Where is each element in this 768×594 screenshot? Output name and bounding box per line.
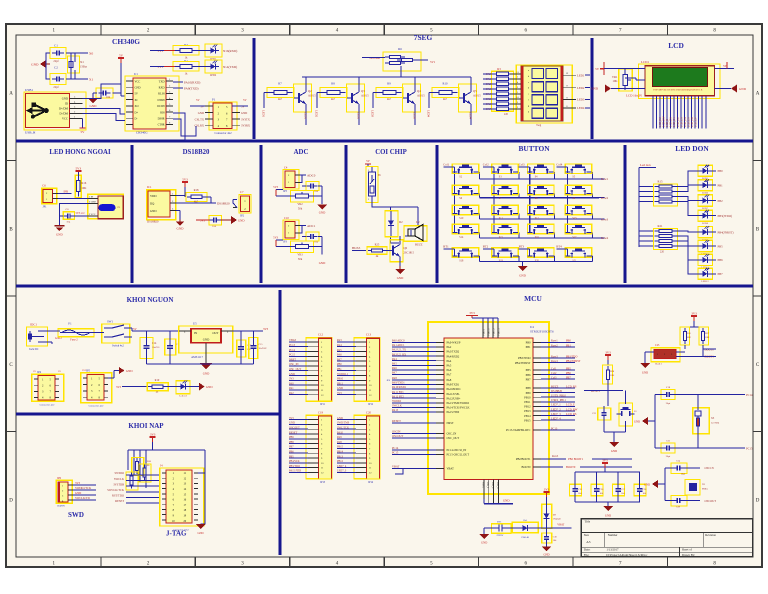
wire crystal network (46, 53, 88, 79)
ground GND ADC0 (312, 186, 327, 215)
button S11 (492, 205, 518, 220)
svg-text:VDD_2: VDD_2 (493, 328, 496, 336)
svg-text:GND: GND (739, 87, 747, 91)
section title MCU (524, 294, 542, 303)
svg-text:S16: S16 (535, 236, 540, 239)
svg-text:3V3: 3V3 (605, 351, 611, 355)
svg-text:Row5: Row5 (552, 455, 559, 458)
svg-text:PA13/TMS/SWDIO: PA13/TMS/SWDIO (447, 402, 470, 405)
svg-text:PB14: PB14 (524, 415, 531, 418)
svg-text:U5: U5 (193, 322, 197, 326)
svg-text:Connector 4x2: Connector 4x2 (89, 405, 105, 408)
switch SW1 (92, 320, 136, 348)
svg-text:JP13: JP13 (320, 481, 326, 484)
section title LCD (668, 41, 684, 50)
svg-text:1 IN: 1 IN (89, 197, 93, 199)
svg-text:Fuse 2: Fuse 2 (70, 339, 78, 342)
svg-text:GND: GND (238, 219, 245, 223)
svg-text:BUZZ: BUZZ (415, 243, 423, 247)
svg-text:PA11/USB-: PA11/USB- (447, 393, 460, 396)
svg-text:GND: GND (611, 449, 617, 453)
svg-text:LED2: LED2 (315, 110, 319, 118)
svg-text:3V3TDB: 3V3TDB (113, 482, 124, 486)
svg-text:3V3TX: 3V3TX (241, 117, 251, 121)
net label OSCIN (685, 466, 715, 470)
svg-text:3V3: 3V3 (469, 311, 475, 315)
capacitor C23 (661, 440, 675, 459)
svg-text:10K: 10K (705, 336, 710, 339)
svg-text:GND: GND (543, 554, 549, 557)
svg-text:LED4: LED4 (469, 112, 473, 120)
svg-text:3V3: 3V3 (82, 369, 87, 372)
capacitor C14 electrolytic (140, 331, 160, 364)
svg-text:USB_H: USB_H (25, 131, 36, 135)
button S8 (528, 185, 555, 200)
svg-text:VBAT: VBAT (557, 523, 564, 526)
svg-text:SWDIO: SWDIO (115, 471, 124, 475)
section title LED DON (675, 144, 709, 153)
power 5V3 DS18B20 (176, 178, 188, 196)
svg-text:PA9(TXD): PA9(TXD) (184, 87, 199, 91)
svg-text:PB6: PB6 (566, 372, 571, 375)
svg-text:S13: S13 (572, 217, 577, 220)
svg-text:Col1: Col1 (551, 367, 557, 370)
net label Led don (640, 163, 656, 168)
svg-text:3V3: 3V3 (544, 488, 550, 492)
wire coi (372, 167, 418, 243)
label U4 STM32F103C8T6 (530, 325, 554, 334)
svg-text:BT1: BT1 (443, 244, 449, 248)
net labels boot right (541, 455, 632, 469)
section divider BUTTON/LED-DON (624, 145, 627, 283)
svg-text:PA3/TXD2: PA3/TXD2 (447, 351, 460, 354)
svg-text:D+: D+ (135, 111, 139, 114)
section title LED HONG NGOAI (49, 149, 111, 156)
wire IR (58, 194, 88, 226)
net labels nap (107, 471, 159, 503)
ground arrow GND usb crystal (31, 60, 50, 68)
wire transistor stage 1 (264, 77, 306, 125)
svg-text:Row1: Row1 (601, 177, 609, 181)
resistor pack R15 (654, 180, 678, 207)
resistor network RP1 top (362, 47, 436, 71)
svg-text:C14: C14 (152, 342, 157, 345)
net label DS18B20 (217, 201, 230, 205)
buzzer U2 (404, 220, 427, 247)
svg-text:Date:: Date: (584, 548, 591, 552)
ground GND IR (54, 226, 64, 237)
svg-text:RI8: RI8 (160, 111, 165, 114)
ground GND crystal32 (634, 417, 655, 425)
svg-text:DCD8: DCD8 (157, 105, 165, 108)
power 5V LCD left (595, 62, 645, 75)
svg-text:PA9/TXD1: PA9/TXD1 (447, 384, 460, 387)
svg-text:VDD: VDD (150, 194, 157, 198)
svg-text:PB7: PB7 (566, 377, 571, 380)
svg-text:D+/DM: D+/DM (59, 107, 69, 111)
net label N16(RXD) (223, 49, 237, 53)
svg-text:GND: GND (177, 227, 185, 231)
section title ADC (294, 149, 309, 156)
svg-text:PB1: PB1 (718, 184, 724, 188)
fuse F1 (44, 322, 94, 342)
svg-text:PA10(RXD): PA10(RXD) (184, 81, 200, 85)
button S5 (565, 164, 592, 179)
svg-text:BT1: BT1 (497, 521, 502, 524)
wire led don bus (639, 168, 656, 248)
svg-text:PB0: PB0 (526, 342, 531, 345)
svg-text:VDD_1: VDD_1 (488, 328, 491, 336)
svg-text:c: c (528, 81, 529, 84)
svg-text:10uF16V: 10uF16V (259, 348, 268, 350)
svg-text:GND: GND (503, 499, 510, 503)
net labels Row1-Row4 (601, 177, 609, 240)
capacitor C24 (671, 460, 687, 476)
svg-text:5V3 vcc: 5V3 vcc (76, 212, 86, 215)
svg-text:1/13/2017: 1/13/2017 (606, 548, 619, 552)
svg-text:PB11: PB11 (524, 401, 531, 404)
svg-text:22pf: 22pf (53, 60, 58, 63)
svg-text:LCD_RS: LCD_RS (566, 385, 577, 388)
svg-text:PB0: PB0 (718, 169, 724, 173)
svg-text:PC14: PC14 (746, 393, 753, 397)
svg-text:Q5: Q5 (473, 89, 477, 93)
section divider KHOI-NGUON/MCU vertical (279, 290, 282, 555)
ground GND MCU bottom (484, 499, 513, 504)
svg-text:PA6: PA6 (447, 369, 452, 372)
section title KHOI NAP (128, 422, 164, 430)
resistor R9 (376, 82, 403, 102)
svg-text:C7: C7 (240, 190, 244, 194)
svg-text:32.768k: 32.768k (711, 422, 720, 425)
svg-text:3V3: 3V3 (116, 385, 122, 389)
svg-text:LED1: LED1 (262, 110, 266, 118)
svg-text:LCD_D6: LCD_D6 (691, 117, 694, 127)
ground GND decoupling (603, 506, 613, 518)
header JP4 nguon (32, 370, 64, 407)
svg-text:Q4: Q4 (417, 89, 421, 93)
connector J5 ADC (273, 216, 300, 244)
section title DS18B20 (183, 149, 210, 156)
power 5V3 C9 (196, 219, 210, 223)
svg-text:GND: GND (241, 111, 247, 115)
net label PC14 (674, 393, 753, 397)
svg-text:PA4/RXD2: PA4/RXD2 (447, 355, 460, 358)
svg-text:LCD_D1: LCD_D1 (673, 117, 676, 127)
svg-text:X1: X1 (80, 60, 84, 64)
svg-text:PB3/JTDO: PB3/JTDO (518, 357, 530, 360)
power 3V3 MCU top (466, 311, 498, 322)
potentiometer VR3 (291, 241, 314, 261)
svg-text:5V: 5V (81, 130, 86, 134)
power 3V3 boot (685, 312, 703, 328)
svg-text:10K: 10K (610, 374, 615, 377)
ground GND ADC1 (312, 205, 327, 266)
wire transistor stage 2 (317, 77, 359, 125)
net label LCD1 (641, 60, 649, 64)
svg-text:DS18B20: DS18B20 (183, 149, 210, 156)
button matrix row wires (476, 172, 604, 238)
capacitor C6 (306, 232, 319, 244)
net label PC15 (674, 446, 753, 450)
svg-text:Jack DC: Jack DC (29, 348, 39, 351)
relay J6 (366, 167, 381, 203)
svg-text:GND: GND (135, 87, 141, 90)
svg-text:20pf: 20pf (666, 402, 671, 405)
svg-text:F1: F1 (68, 322, 72, 326)
svg-text:Title: Title (585, 519, 591, 523)
section divider DS18B20/ADC (260, 145, 263, 283)
wire led don to leds (677, 171, 700, 274)
net label 5V3 C8 (76, 212, 86, 215)
svg-text:5V1: 5V1 (430, 60, 436, 64)
resistor R1 (173, 59, 199, 76)
svg-text:Col2: Col2 (483, 162, 489, 166)
svg-text:Row2: Row2 (551, 344, 558, 347)
svg-text:DTR8: DTR8 (158, 99, 166, 102)
svg-text:KHOI NAP: KHOI NAP (128, 422, 164, 430)
net label 5V nguon (133, 327, 179, 331)
svg-text:Sheet of: Sheet of (682, 548, 692, 552)
svg-text:BT2: BT2 (483, 244, 489, 248)
LED LED5 (698, 165, 723, 180)
IC U4 body (436, 322, 541, 504)
svg-text:PC15-OSC32_OUT: PC15-OSC32_OUT (447, 454, 470, 457)
svg-text:JP11: JP11 (320, 403, 326, 406)
ground GND jtag (196, 468, 206, 535)
svg-text:e: e (528, 93, 529, 96)
svg-text:LED7_2: LED7_2 (551, 408, 561, 411)
svg-text:PB2: PB2 (718, 199, 724, 203)
potentiometer VR2 (291, 191, 314, 211)
svg-text:PA10/RXD1: PA10/RXD1 (447, 388, 462, 391)
ground GND DS18B20 (176, 211, 184, 231)
MCU left net labels group1 (392, 340, 436, 375)
svg-text:JP12: JP12 (368, 403, 374, 406)
svg-text:A1015: A1015 (473, 95, 481, 98)
svg-text:S17: S17 (572, 236, 577, 239)
svg-text:S12: S12 (535, 217, 540, 220)
svg-text:S14: S14 (459, 236, 464, 239)
svg-text:LED6: LED6 (702, 192, 709, 195)
header C12 (289, 333, 332, 407)
transistor Q3 (347, 84, 370, 112)
svg-text:X1: X1 (89, 78, 93, 82)
svg-text:Revision: Revision (705, 533, 716, 537)
svg-text:5V: 5V (33, 370, 36, 373)
svg-text:10K: 10K (687, 336, 692, 339)
svg-text:50k: 50k (298, 208, 303, 211)
ground GND boot (640, 352, 654, 375)
svg-text:LED4: LED4 (577, 106, 585, 110)
svg-text:C6: C6 (42, 184, 46, 188)
header C19 (289, 410, 332, 484)
button S6 (452, 185, 479, 200)
LCD module body (626, 64, 720, 99)
svg-text:VCC: VCC (62, 117, 68, 121)
ground GND LCD left (591, 78, 645, 93)
section label J-TAG (166, 530, 187, 538)
svg-text:C12: C12 (318, 333, 324, 337)
wire crystal32k (655, 395, 698, 449)
svg-text:PC15: PC15 (746, 446, 753, 450)
svg-text:A1015: A1015 (361, 95, 369, 98)
transistor Q2 (294, 84, 317, 112)
svg-text:C25: C25 (655, 344, 660, 347)
svg-text:PB12: PB12 (524, 406, 531, 409)
svg-text:PA7: PA7 (447, 374, 452, 377)
svg-text:Q2: Q2 (308, 89, 312, 93)
ground GND U5 (200, 363, 212, 376)
svg-text:Row1: Row1 (551, 340, 558, 343)
DC jack JDC1 (27, 323, 48, 352)
svg-text:5V: 5V (595, 67, 600, 71)
svg-text:PB7: PB7 (718, 272, 724, 276)
svg-text:VBAT: VBAT (447, 468, 455, 471)
svg-text:LED3: LED3 (371, 110, 375, 118)
jumper C25 boot (651, 344, 680, 366)
svg-text:RST/TDO: RST/TDO (112, 494, 124, 498)
resistor pack R3 (492, 67, 514, 116)
svg-text:P1: P1 (212, 98, 216, 102)
section title KHOI NGUON (127, 296, 174, 304)
svg-text:Q3: Q3 (361, 89, 365, 93)
svg-text:150hz: 150hz (80, 66, 88, 69)
transistor Q4 (403, 84, 426, 112)
svg-text:R21: R21 (657, 224, 663, 228)
power 5V LCD right (715, 62, 735, 69)
svg-text:50k: 50k (298, 258, 303, 261)
wire USB data to U1 (83, 88, 126, 120)
svg-text:STM32F103C8T6: STM32F103C8T6 (530, 330, 554, 334)
svg-text:PC14-OSC32_IN: PC14-OSC32_IN (447, 449, 467, 452)
svg-text:LCD_D4: LCD_D4 (684, 117, 687, 127)
svg-text:LED2: LED2 (577, 86, 585, 90)
svg-text:LCD_D3: LCD_D3 (680, 117, 683, 127)
svg-text:MCU: MCU (524, 294, 542, 303)
LCD pins bottom wires (653, 96, 706, 129)
svg-text:D-/DM: D-/DM (59, 112, 68, 116)
svg-text:Size: Size (584, 533, 590, 537)
power 5V U1 (118, 54, 125, 97)
svg-text:Row4: Row4 (601, 236, 609, 240)
svg-text:SW1: SW1 (107, 320, 114, 324)
svg-text:PC13: PC13 (551, 427, 558, 430)
MCU left reset osc labels (392, 419, 436, 469)
svg-text:N16(RXD): N16(RXD) (223, 49, 237, 53)
svg-text:PA4: PA4 (447, 360, 452, 363)
LED LED10 (698, 240, 723, 255)
resistor R26 (680, 327, 691, 345)
resistor R16 (75, 172, 87, 198)
svg-text:PA5: PA5 (447, 365, 452, 368)
7seg display DS1 (510, 65, 572, 127)
svg-text:7SEG: 7SEG (414, 33, 433, 42)
LED D3 power (167, 381, 199, 398)
svg-text:IFR: IFR (64, 189, 69, 193)
LED LED8 (698, 210, 732, 225)
wire JP2 (233, 200, 237, 208)
svg-text:1N4148: 1N4148 (553, 518, 562, 521)
svg-text:Drawn By:: Drawn By: (682, 553, 695, 557)
bottom button row BT1-BT4 (443, 244, 592, 262)
svg-text:Col3: Col3 (551, 377, 557, 380)
svg-text:LED7_1: LED7_1 (551, 404, 561, 407)
svg-text:PB0: PB0 (566, 340, 571, 343)
svg-text:5V3: 5V3 (273, 186, 278, 189)
net labels SWD (73, 481, 96, 500)
svg-text:LCD_E: LCD_E (566, 404, 575, 407)
ground GND vbat (479, 534, 551, 557)
net GND jack (44, 336, 62, 344)
svg-text:LED2: LED2 (357, 112, 361, 120)
button S15 (492, 224, 518, 239)
wire transistor stage 4 (429, 77, 471, 125)
svg-text:PB1: PB1 (566, 344, 571, 347)
svg-text:LED7_4: LED7_4 (551, 418, 561, 421)
svg-text:GND: GND (62, 97, 68, 101)
wire ADC 0 (276, 175, 306, 196)
svg-text:PB8: PB8 (526, 387, 531, 390)
svg-text:N/A(TXD): N/A(TXD) (223, 65, 237, 69)
svg-text:PB5: PB5 (566, 367, 571, 370)
svg-text:Row2: Row2 (601, 196, 609, 200)
section divider KHOI-NGUON/KHOI-NAP (16, 413, 280, 416)
svg-text:BUZZ: BUZZ (551, 385, 559, 388)
MCU right net labels (541, 340, 581, 431)
svg-text:U3RX_PB11: U3RX_PB11 (551, 399, 566, 402)
svg-text:R15: R15 (657, 180, 663, 184)
svg-text:GND: GND (198, 111, 204, 115)
section divider COI-CHIP/BUTTON (436, 145, 439, 283)
wire DS18B20 DQ (176, 196, 216, 204)
svg-text:RXD: RXD (159, 87, 165, 90)
section divider horizontal mid-band (16, 285, 753, 288)
svg-text:C2: C2 (54, 66, 58, 70)
transistor Q6 (386, 236, 415, 266)
wire button gnd bus (479, 261, 592, 266)
svg-text:PB2 BOOT1: PB2 BOOT1 (568, 457, 584, 461)
svg-text:LCD: LCD (668, 41, 684, 50)
LED LED6 (698, 179, 723, 194)
resistor R25 (367, 244, 387, 259)
crystal cap C1 (50, 44, 66, 64)
header C13 (337, 333, 380, 407)
net label N/A(TXD) (223, 65, 237, 69)
svg-text:Row3: Row3 (551, 355, 558, 358)
LED LED2 (197, 60, 222, 77)
LED LED1 (197, 44, 222, 61)
svg-text:VCC: VCC (135, 80, 141, 83)
svg-text:J-TAG: J-TAG (166, 530, 187, 538)
button S13 (565, 205, 592, 220)
svg-text:Connector 4x2: Connector 4x2 (214, 131, 232, 135)
IC U1 CH340G (125, 72, 179, 135)
button S4 (528, 164, 555, 179)
svg-text:PA14/TCK/SWCLK: PA14/TCK/SWCLK (447, 407, 470, 410)
ground GND osc (644, 480, 665, 488)
ground GND coi (395, 266, 405, 280)
power 5V3 IR (75, 167, 81, 177)
svg-text:LED1: LED1 (577, 73, 585, 77)
svg-text:5V: 5V (119, 54, 124, 58)
svg-text:GND: GND (481, 542, 487, 545)
svg-text:7seg: 7seg (536, 124, 542, 127)
ground GND C3 (89, 93, 97, 108)
potentiometer VR1 (612, 69, 632, 91)
net label BUZZ left (352, 246, 366, 251)
header JP5 nguon (81, 369, 112, 408)
